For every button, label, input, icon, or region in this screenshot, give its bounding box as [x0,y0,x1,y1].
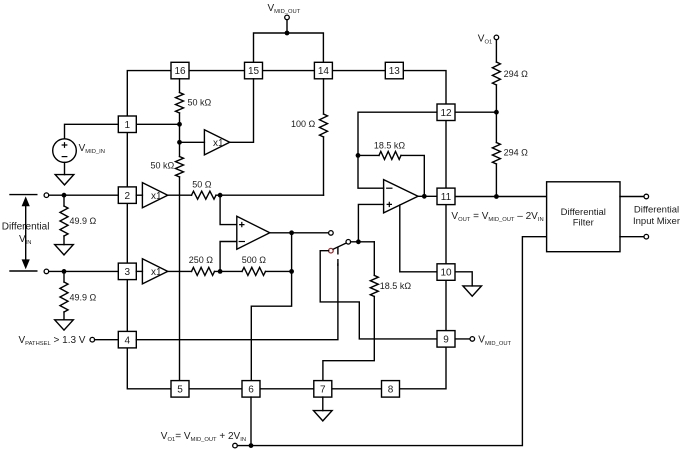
pin 3 [118,263,136,280]
wire pin10 to pin9 [445,280,447,330]
op-amp x1 buffer B [142,259,167,284]
terminal VO1 top [494,35,499,40]
ground below VMID_IN source [55,175,74,185]
wire pin16 down to resistor [179,79,181,93]
switch lever [333,243,346,249]
wire node E to pin 12 [358,112,437,155]
wire op-amp2 output to pin 11 [418,195,437,197]
wire source to ground [64,162,66,174]
op-amp U1 [237,216,270,249]
wire 18.5k lower to pin 7 [323,297,374,381]
wire pin7 to ground [322,397,324,411]
resistor 250 Ohm [192,267,215,275]
block differential filter [547,182,620,252]
wire pin1 to pin2 [126,133,128,187]
resistor 100 Ohm [320,114,328,137]
wire to 49.9 resistor lower [63,271,65,282]
wire pin12 to 294 node [455,111,496,113]
wire pole to node D [351,241,375,243]
wire pin4 to bottom row pin5 [127,348,171,389]
op-amp x1 mid buffer [204,130,229,155]
wire 294 upper to mid node [495,85,497,112]
wire input to pin 2 [49,194,119,196]
svg-text:2: 2 [125,191,131,202]
junction input termination upper [62,193,67,198]
wire node B [215,270,243,272]
svg-text:294 Ω: 294 Ω [504,148,529,158]
terminal VIN+ input [44,193,49,198]
wire VPATHSEL control from pin 4 [136,264,338,340]
svg-text:VOUT = VMID_OUT – 2VIN: VOUT = VMID_OUT – 2VIN [451,211,543,223]
junction op-amp1 output [289,230,294,235]
svg-text:14: 14 [318,66,330,77]
wire pin9 to bottom row pin8 [400,347,447,389]
svg-text:VMID_OUT: VMID_OUT [478,335,511,347]
ground below 49.9 upper [55,245,74,255]
junction node B [218,269,223,274]
resistor 18.5 kOhm lower [370,275,378,296]
wire pin1 to 50k divider node [136,123,179,125]
resistor 50 kOhm upper [176,93,184,114]
wire top pin row 16-15 [189,70,245,72]
junction 294 divider mid node [494,110,499,115]
svg-text:6: 6 [248,384,254,395]
svg-text:500 Ω: 500 Ω [242,255,267,265]
wire 500 Ohm to feedback node [266,270,292,272]
wire VMID_OUT terminal stem [286,20,288,33]
pin 4 [118,331,136,348]
switch contact lower selected [329,248,334,253]
wire red contact to pin 9 net [320,251,437,339]
wire pin2 to buffer [136,194,142,196]
junction divider top node [177,122,182,127]
wire pin 16 left to pin 1 [127,71,171,116]
wire node E to feedback resistor [358,154,379,156]
svg-text:294 Ω: 294 Ω [504,69,529,79]
op-amp U2 [384,180,418,213]
terminal VIN- input [44,269,49,274]
wire to 49.9 resistor upper [63,195,65,206]
junction feedback node C [289,269,294,274]
wire riser to 100 Ohm resistor [323,137,325,195]
terminal VMID_OUT top [285,15,290,20]
pin 14 [314,62,332,79]
arrow differential VIN span [10,194,37,196]
svg-text:15: 15 [248,66,260,77]
svg-text:18.5 kΩ: 18.5 kΩ [374,140,406,150]
wire 49.9 lower to ground [63,312,65,320]
svg-text:49.9 Ω: 49.9 Ω [70,292,97,302]
wire bottom row 6-7 [260,388,314,390]
wire input to pin 3 [49,270,119,272]
svg-text:50 kΩ: 50 kΩ [151,161,175,171]
wire pin 11 to filter [455,196,547,198]
junction buffer tap node [177,140,182,145]
svg-text:8: 8 [388,384,394,395]
svg-text:VO1= VMID_OUT + 2VIN: VO1= VMID_OUT + 2VIN [161,431,246,443]
svg-text:4: 4 [125,335,131,346]
terminal VPATHSEL [90,337,95,342]
junction attenuator node A [218,193,223,198]
resistor 500 Ohm [242,267,266,275]
terminal mixer upper [644,194,649,199]
wire pin12 to pin11 [445,120,447,188]
wire VO1 to 294 upper [495,40,497,62]
wire pin9 to VMID_OUT terminal [455,338,470,340]
svg-text:10: 10 [440,268,452,279]
wire feedback resistor to op-amp2 output [401,155,424,196]
junction op-amp2 output [422,194,427,199]
svg-text:50 Ω: 50 Ω [192,180,212,190]
resistor 49.9 Ohm lower [60,282,68,312]
resistor 18.5 kOhm feedback [379,151,401,159]
wire top pin row 14-13 [332,70,385,72]
svg-text:5: 5 [177,384,183,395]
wire pin3 to buffer [136,270,142,272]
svg-text:x1: x1 [151,267,162,278]
svg-text:VO1: VO1 [478,33,492,45]
switch contact upper [329,231,334,236]
svg-text:11: 11 [441,192,452,203]
ground below 49.9 lower [55,320,74,330]
pin 7 [314,381,332,398]
terminal mixer lower [644,234,649,239]
wire VPATHSEL to pin 4 [95,339,119,341]
wire pin6 to VO1 bottom rail [250,397,252,446]
svg-text:250 Ω: 250 Ω [189,255,214,265]
wire op-amp1 - input to node B [220,242,237,272]
pin 6 [242,381,260,398]
svg-text:x1: x1 [151,191,162,202]
switch pole contact [346,240,351,245]
junction VO1 rail [249,443,254,448]
wire feedback to op-amp1 output [291,233,293,272]
wire pin2 to pin3 [126,203,128,263]
wire mid buffer output to pin 15 [230,79,254,142]
svg-text:16: 16 [174,66,186,77]
svg-text:7: 7 [320,384,326,395]
junction feedback node E [356,153,361,158]
svg-text:VPATHSEL > 1.3 V: VPATHSEL > 1.3 V [19,335,86,347]
svg-text:18.5 kΩ: 18.5 kΩ [380,281,412,291]
pin 13 [385,62,403,79]
wire buffer A out to 50 Ohm [168,194,192,196]
wire long vertical to pin 5 [179,177,181,381]
wire tap to mid buffer [180,141,205,143]
wire between 50k resistors [179,113,181,157]
junction node D [356,239,361,244]
wire node A to op-amp1 + input [220,195,237,224]
pin 9 [437,331,455,348]
wire buffer B out to 250 Ohm [168,270,192,272]
wire filter output upper [620,196,644,198]
wire pin1 to VMID_IN source [65,124,119,139]
wire filter output lower [620,236,644,238]
wire op-amp1 output to switch contact [270,232,329,234]
svg-text:50 kΩ: 50 kΩ [188,98,212,108]
terminal VO1 bottom [233,443,238,448]
junction input termination lower [62,269,67,274]
pin 8 [382,381,400,398]
resistor 50 kOhm lower [176,157,184,178]
wire top horizontal to pins 15 and 14 [254,33,324,62]
wire op-amp2 - input node [358,155,384,188]
svg-text:Differential: Differential [561,207,606,218]
wire top pin row 15-14 [263,70,315,72]
pin 1 [118,116,136,133]
svg-text:VMID_IN: VMID_IN [79,143,105,155]
wire pin10 to ground [455,272,472,286]
wire mid node to 294 lower [495,112,497,142]
wire node D to 18.5k lower [373,242,375,276]
svg-text:Filter: Filter [573,218,594,229]
svg-text:Input Mixer: Input Mixer [633,216,680,227]
wire 50 Ohm to 100 Ohm riser [216,194,324,196]
wire bottom row 7-8 [332,388,382,390]
resistor 49.9 Ohm upper [60,206,68,236]
wire node C to pin 6 [251,271,291,380]
wire pin 13 to pin 12 [403,71,446,104]
svg-text:100 Ω: 100 Ω [291,119,316,129]
wire switch control dashed linkage [337,247,339,267]
pin 2 [118,187,136,204]
resistor 50 Ohm [192,191,217,199]
svg-text:3: 3 [125,267,131,278]
resistor 294 Ohm lower [492,143,500,165]
wire pin11 to pin10 [445,205,447,264]
ground at pin 10 [463,286,482,296]
wire VO1 rail to filter lower input [237,237,546,446]
wire 100 Ohm to pin 14 [323,79,325,114]
svg-text:1: 1 [125,120,131,131]
pin 16 [171,62,189,79]
pin 10 [437,264,455,281]
resistor 294 Ohm upper [492,62,500,85]
svg-text:9: 9 [443,335,449,346]
svg-text:Differential: Differential [634,205,679,216]
source VMID_IN [53,139,77,163]
pin 15 [245,62,263,79]
svg-text:VMID_OUT: VMID_OUT [268,3,301,15]
junction top VMID_OUT [285,31,290,36]
wire bottom row 5-6 [189,388,242,390]
svg-text:13: 13 [389,66,401,77]
junction VOUT node [494,194,499,199]
pin 5 [171,381,189,398]
pin 12 [437,104,455,121]
terminal VMID_OUT right [470,337,475,342]
wire 294 lower to VOUT node [495,164,497,197]
wire pin3 to pin4 [126,280,128,332]
wire 49.9 upper to ground [63,236,65,245]
wire op-amp2 ref pin to pin 10 [400,205,437,272]
ground below pin 7 [314,411,333,421]
op-amp x1 buffer A [142,183,167,208]
svg-text:12: 12 [440,108,452,119]
svg-text:x1: x1 [213,138,224,149]
wire node D up to op-amp2 + input [358,204,383,241]
pin 11 [437,188,455,205]
svg-text:49.9 Ω: 49.9 Ω [70,216,97,226]
